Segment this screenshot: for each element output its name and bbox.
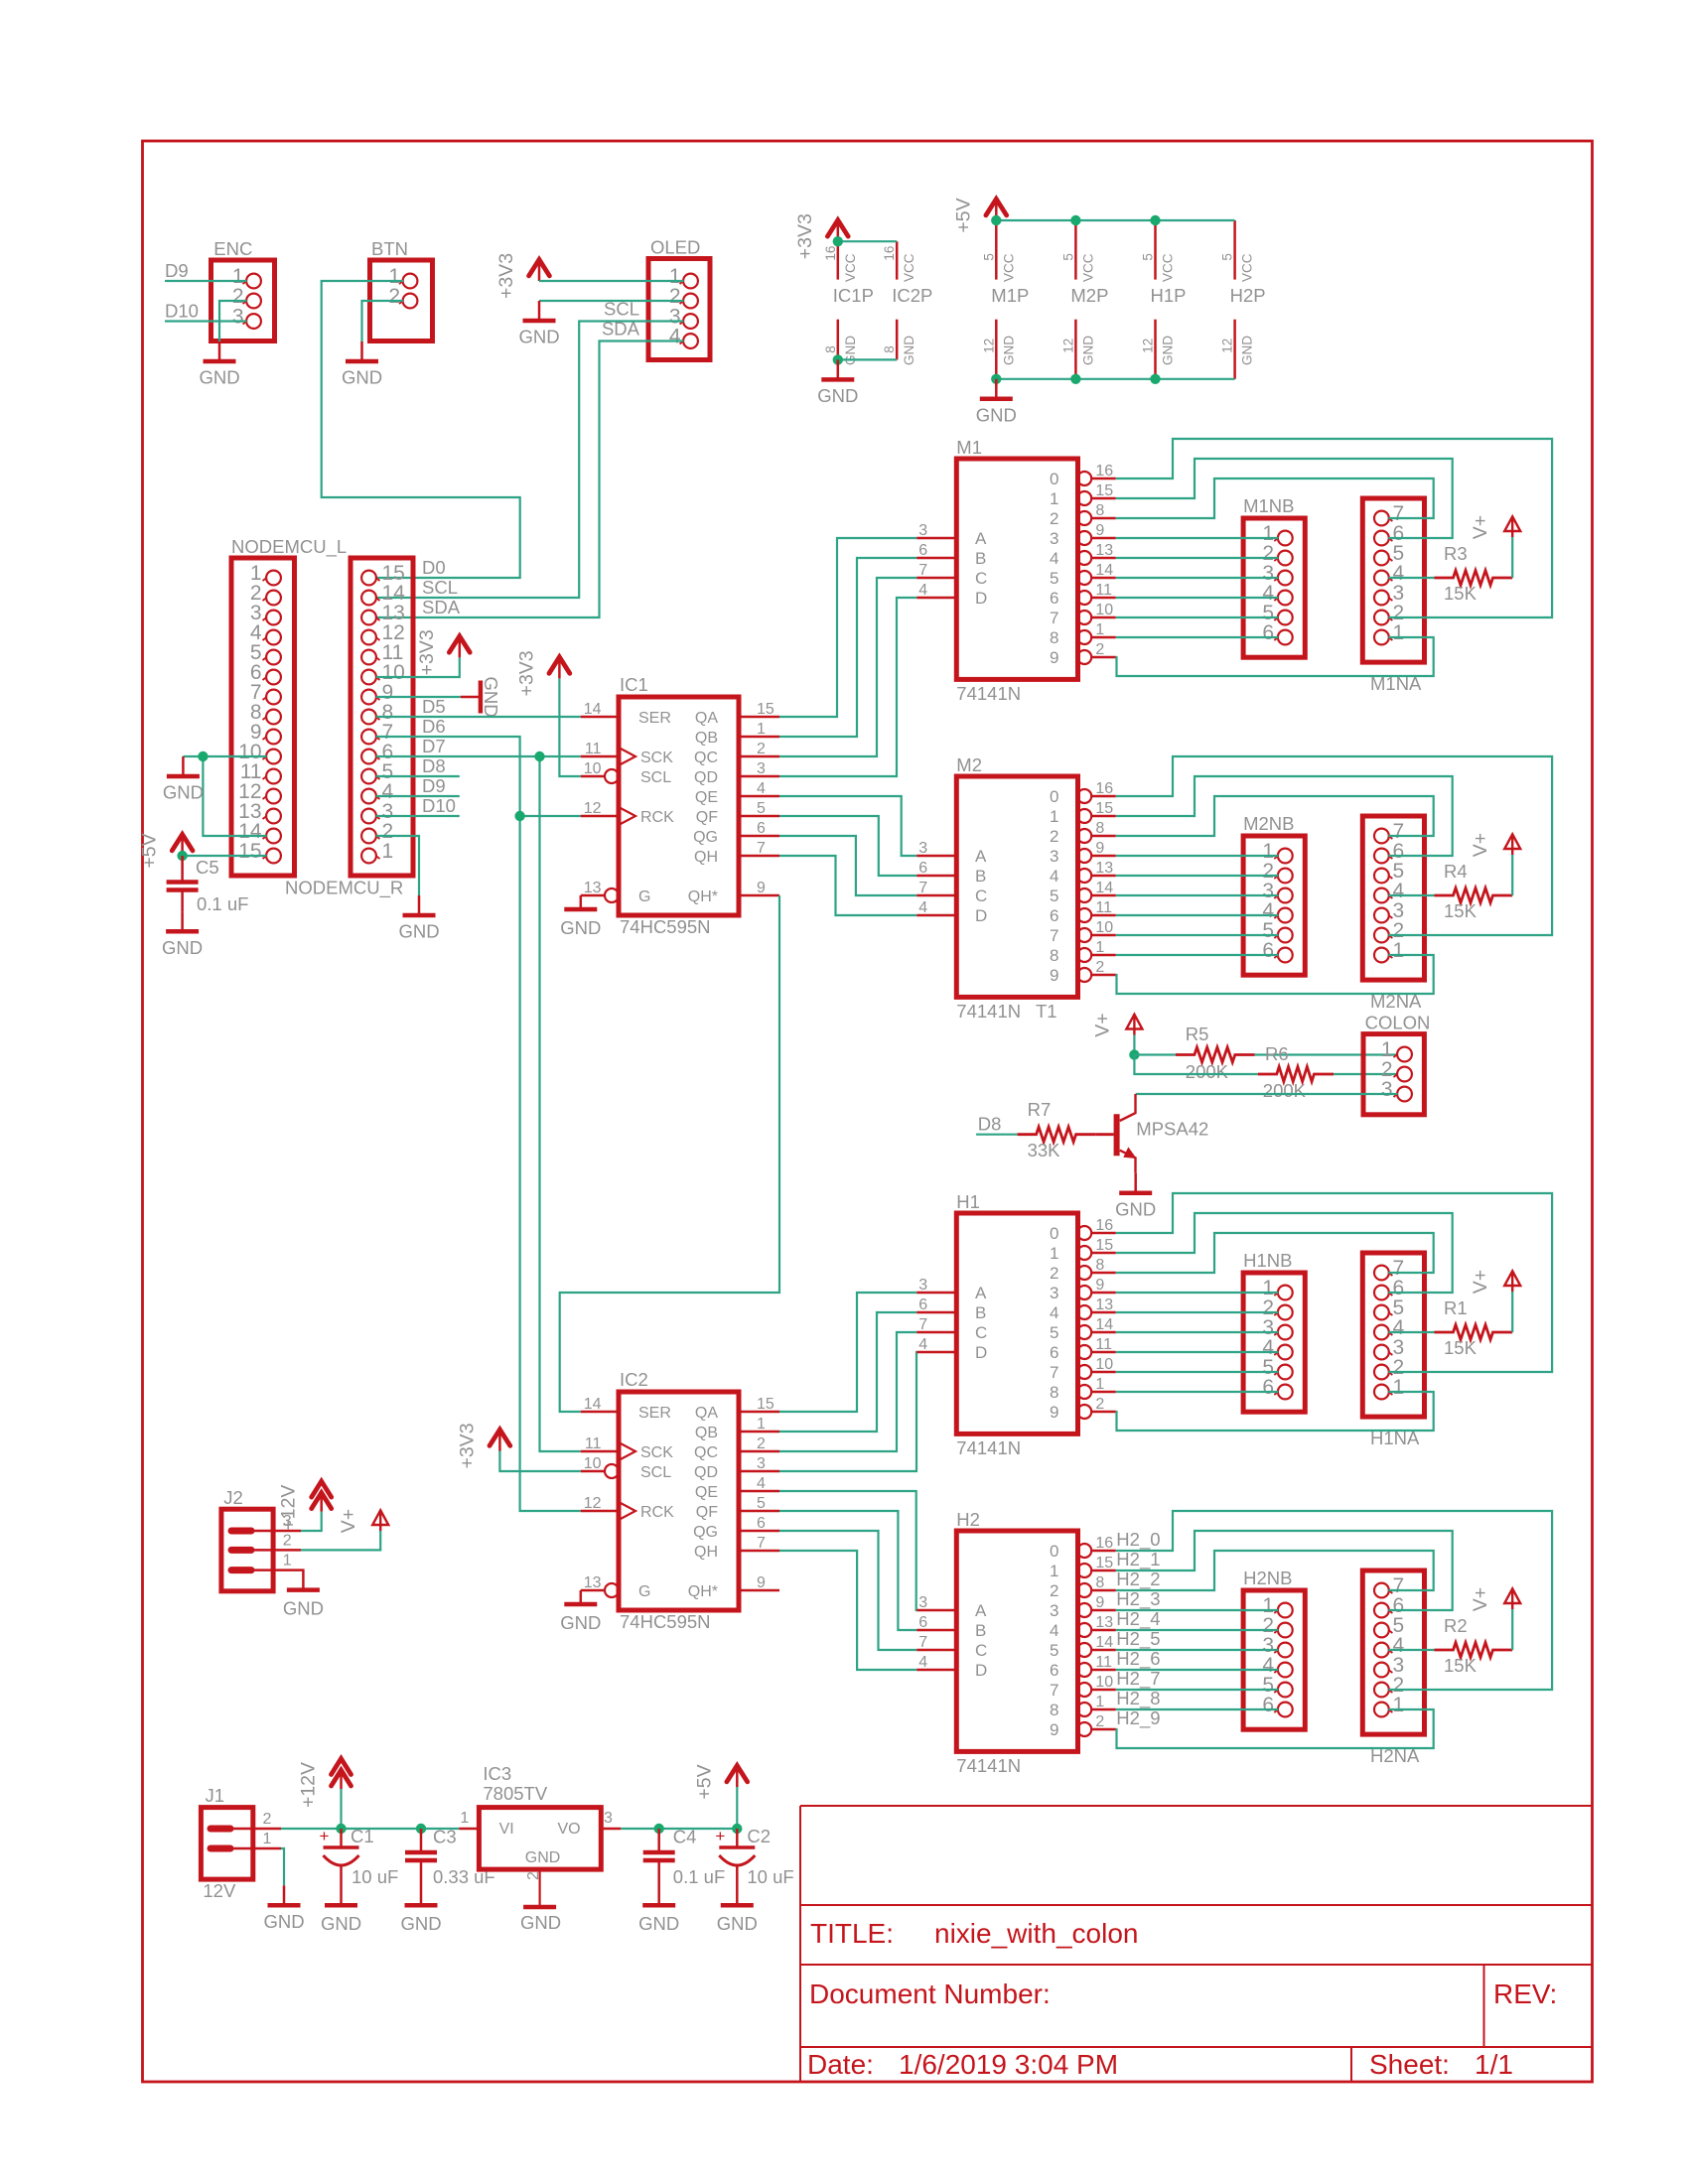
svg-text:8: 8 [1050,946,1058,965]
svg-text:H1: H1 [956,1191,980,1212]
svg-text:3: 3 [1050,847,1058,866]
svg-text:C: C [975,887,987,905]
svg-text:QF: QF [696,809,718,826]
connector H2NB [1243,1590,1305,1729]
svg-text:+3V3: +3V3 [456,1423,478,1468]
svg-text:8: 8 [1095,1257,1104,1274]
svg-text:B: B [975,1621,986,1640]
wire J2 pin3 to +12V [273,1530,301,1533]
svg-text:VCC: VCC [1080,253,1095,282]
wire V+ to R6 [1134,1055,1257,1075]
svg-text:1: 1 [460,1810,469,1827]
wire R2 to V+ [1511,1609,1513,1650]
wire M1 digits 3-8 to M1NB [1116,537,1279,539]
IC1 pin 14 SER [581,716,619,719]
connector J2 [221,1509,273,1591]
svg-text:13: 13 [584,880,602,896]
svg-text:VI: VI [499,1821,514,1838]
junction H1P VCC [1150,215,1160,225]
svg-text:H2NB: H2NB [1243,1568,1292,1588]
wire BTN pin1 to D0 net [322,281,520,578]
svg-text:200K: 200K [1186,1061,1229,1082]
resistor R4 15K [1435,888,1513,903]
wire V+ to R5 [1134,1053,1176,1055]
IC1 pin 11 SCK [581,755,619,758]
svg-text:QE: QE [695,789,718,806]
svg-text:D: D [975,589,987,608]
svg-text:13: 13 [1095,542,1113,559]
IC2 G to GND [580,1590,583,1604]
svg-text:+12V: +12V [298,1762,320,1808]
svg-text:H2_1: H2_1 [1116,1549,1160,1570]
H1 pin 13 digit 4 [1077,1305,1091,1319]
wire IC1 QH to M2 D [779,856,916,915]
wire ENC pin2 to GND [219,301,247,341]
wire R4 to V+ [1511,855,1513,895]
svg-text:5: 5 [1141,253,1156,261]
svg-text:IC3: IC3 [483,1763,511,1784]
svg-text:13: 13 [1095,1297,1113,1313]
ground T1 emitter [1134,1173,1137,1193]
svg-text:QH: QH [694,849,718,866]
svg-text:H2_9: H2_9 [1116,1707,1160,1729]
svg-text:200K: 200K [1263,1080,1307,1101]
wire H2 digits 3-8 to H2NB [1116,1609,1279,1611]
svg-text:6: 6 [918,1297,927,1313]
svg-text:REV:: REV: [1493,1979,1557,2009]
svg-text:10: 10 [1095,1674,1113,1691]
svg-text:16: 16 [882,246,897,261]
svg-text:13: 13 [1095,860,1113,877]
H2 pin 16 digit 0 [1077,1544,1091,1558]
connector M1NA [1362,498,1424,662]
svg-text:MPSA42: MPSA42 [1136,1119,1208,1140]
svg-text:15K: 15K [1444,1337,1477,1358]
svg-text:0: 0 [1050,787,1058,806]
svg-text:11: 11 [1095,582,1112,599]
wire V+ stem R5 [1133,1035,1135,1055]
svg-text:9: 9 [1095,522,1104,539]
wire NODEMCU_L pin10/pin14 to GND [183,755,266,757]
svg-text:10 uF: 10 uF [352,1866,398,1887]
wire +5V to NODEMCU_L pin15 [183,855,267,857]
svg-text:16: 16 [823,246,838,261]
wire IC2 QH to H2 D [779,1551,916,1670]
connector COLON [1363,1034,1424,1115]
connector H1NA [1362,1253,1424,1417]
M1 pin 16 digit 0 [1077,472,1091,485]
connector J1 [201,1808,252,1880]
wire M2NA pin4 to resistor R4 [1388,894,1434,896]
wire M2 digits 3-8 to M2NB [1116,855,1279,857]
ground J2 [287,1587,320,1592]
svg-text:Sheet:: Sheet: [1369,2049,1450,2080]
svg-text:2: 2 [1050,509,1058,528]
M2 pin 6 B [916,875,956,878]
wire R1 to V+ [1511,1292,1513,1332]
wire COLON pin3 to T1 collector [1136,1093,1398,1095]
svg-text:SCK: SCK [640,750,673,766]
connector H1NB [1243,1273,1305,1412]
resistor R2 15K [1435,1643,1513,1658]
svg-text:SER: SER [638,1405,671,1422]
svg-text:C: C [975,1323,987,1342]
wire H1NA pin4 to resistor R1 [1388,1331,1434,1333]
svg-text:H2: H2 [956,1509,980,1530]
svg-text:1: 1 [1050,1244,1058,1263]
svg-text:QC: QC [694,1444,718,1461]
svg-text:D0: D0 [422,557,446,578]
svg-text:3: 3 [1050,1601,1058,1620]
svg-text:QH*: QH* [688,1583,718,1600]
svg-text:R6: R6 [1265,1043,1289,1064]
svg-text:8: 8 [1095,1574,1104,1591]
IC1 pin 5 QF [739,815,779,818]
H1 pin 3 A [916,1292,956,1295]
svg-text:1: 1 [283,1553,292,1570]
svg-text:3: 3 [757,1455,766,1472]
svg-text:1: 1 [1095,1376,1104,1393]
svg-text:1: 1 [1050,1562,1058,1580]
svg-text:1: 1 [1393,1694,1405,1716]
svg-text:6: 6 [757,820,766,837]
connector M2NA [1362,816,1424,980]
H2 pin 3 A [916,1609,956,1612]
power symbol H2P GND pin [1233,320,1236,379]
wire IC1 QA to M1 A [779,538,916,717]
svg-text:8: 8 [882,345,897,353]
svg-text:2: 2 [1050,1264,1058,1283]
svg-text:GND: GND [717,1913,758,1934]
transistor T1 MPSA42 [1114,1114,1120,1156]
svg-text:12: 12 [1141,339,1156,353]
IC2 pin 7 QH [739,1550,779,1553]
IC1 pin 6 QG [739,835,779,838]
wire +12V stem C1 [340,1789,342,1829]
supply +3V3 at IC1 SCL [549,657,570,673]
svg-text:74141N: 74141N [956,683,1021,704]
svg-text:1/6/2019 3:04 PM: 1/6/2019 3:04 PM [899,2049,1118,2080]
M1 pin 4 D [916,597,956,600]
svg-text:15K: 15K [1444,1655,1477,1676]
svg-text:1/1: 1/1 [1475,2049,1513,2080]
power symbol M1P GND pin [995,320,998,379]
IC1 pin 12 RCK [581,815,619,818]
svg-text:4: 4 [757,780,766,797]
wire +5V rail [996,219,1234,221]
svg-text:1: 1 [1393,621,1405,644]
svg-text:5: 5 [1060,253,1075,261]
M2 pin 13 digit 4 [1077,869,1091,883]
wire H1 digit0 to H1NA pin2 [1116,1193,1552,1372]
IC2 pin 15 QA [739,1411,779,1414]
svg-text:33K: 33K [1028,1140,1061,1160]
svg-text:4: 4 [1050,1303,1058,1322]
svg-text:QB: QB [695,730,718,747]
wire H1 digit2 to H1NA pin7 [1116,1233,1434,1273]
H1 pin 4 D [916,1351,956,1354]
H1 pin 7 C [916,1331,956,1334]
svg-text:7: 7 [918,880,927,896]
svg-text:10 uF: 10 uF [747,1866,793,1887]
svg-text:A: A [975,529,987,548]
svg-text:GND: GND [638,1913,679,1934]
svg-text:1: 1 [1095,1694,1104,1710]
svg-text:3: 3 [918,522,927,539]
svg-text:9: 9 [1095,840,1104,857]
H1 pin 8 digit 2 [1077,1266,1091,1280]
ground OLED [538,301,541,321]
svg-text:GND: GND [518,327,559,347]
svg-text:NODEMCU_L: NODEMCU_L [231,536,347,558]
svg-text:VCC: VCC [843,253,858,282]
svg-text:V+: V+ [338,1509,359,1533]
M1 pin 13 digit 4 [1077,551,1091,565]
svg-text:A: A [975,847,987,866]
H1 pin 2 digit 9 [1077,1405,1091,1419]
svg-text:RCK: RCK [640,809,674,826]
svg-text:2: 2 [388,285,400,308]
M1 pin 11 digit 6 [1077,591,1091,605]
junction IC1P GND [833,354,843,364]
svg-text:GND: GND [400,1913,441,1934]
svg-text:6: 6 [1050,906,1058,925]
H2 pin 2 digit 9 [1077,1722,1091,1736]
svg-text:C: C [975,1641,987,1660]
svg-text:11: 11 [1095,1336,1112,1353]
wire H1 digit1 to H1NA pin6 [1116,1213,1453,1293]
svg-text:2: 2 [757,741,766,757]
H2 pin 1 digit 8 [1077,1703,1091,1716]
svg-text:9: 9 [1050,1403,1058,1422]
svg-text:1: 1 [1095,939,1104,956]
wire D8 to R7 [976,1134,1018,1136]
svg-text:TITLE:: TITLE: [810,1918,894,1949]
H2 pin 8 digit 2 [1077,1583,1091,1597]
svg-text:3: 3 [1050,529,1058,548]
svg-text:GND: GND [1080,336,1095,365]
connector M1NB [1243,518,1305,657]
svg-text:V+: V+ [1470,833,1491,857]
svg-text:GND: GND [162,937,203,958]
IC1 pin 1 QB [739,736,779,739]
svg-text:9: 9 [1050,1720,1058,1739]
wire IC1 QD to M1 D [779,598,916,776]
svg-text:C5: C5 [196,857,219,878]
svg-text:IC2P: IC2P [892,285,932,306]
svg-text:8: 8 [1050,1383,1058,1402]
resistor R5 200K [1176,1047,1255,1062]
svg-text:4: 4 [1050,867,1058,886]
IC1 pin 10 SCL [581,775,605,778]
svg-text:R1: R1 [1444,1297,1468,1318]
svg-text:10: 10 [584,760,602,777]
supply +3V3 at IC2 SCL [490,1430,510,1445]
supply V+ at J2 [372,1510,388,1525]
ground C1 [325,1903,357,1908]
svg-text:7: 7 [1050,609,1058,627]
shift register IC1 74HC595N body [619,697,739,915]
wire SCL net OLED pin3 to NODEMCU_R pin14 [376,322,684,599]
svg-text:Date:: Date: [807,2049,874,2080]
svg-text:+5V: +5V [952,198,974,232]
svg-text:2: 2 [1095,1396,1104,1413]
wire IC3 VO to +5V [621,1828,737,1830]
svg-text:15K: 15K [1444,583,1477,604]
svg-text:10: 10 [1095,919,1113,936]
wire J2 pin2 to V+ [273,1549,301,1552]
svg-text:12: 12 [981,339,996,353]
svg-text:13: 13 [1095,1614,1113,1631]
svg-text:3: 3 [232,306,244,329]
svg-text:14: 14 [1095,1634,1113,1651]
connector H2NA [1362,1570,1424,1734]
svg-text:16: 16 [1095,463,1113,479]
M1 pin 8 digit 2 [1077,511,1091,525]
svg-text:0.1 uF: 0.1 uF [673,1866,725,1887]
svg-text:H1NB: H1NB [1243,1250,1292,1271]
svg-text:QH*: QH* [688,888,718,905]
supply +5V at C2 [727,1766,748,1782]
svg-text:74HC595N: 74HC595N [620,916,711,937]
svg-text:6: 6 [1262,1694,1274,1716]
svg-text:12: 12 [1060,339,1075,353]
power symbol IC1P VCC pin [837,241,840,279]
svg-text:6: 6 [918,860,927,877]
svg-text:VCC: VCC [1240,253,1255,282]
svg-text:Document Number:: Document Number: [809,1979,1051,2009]
connector NODEMCU_R [351,558,413,876]
IC2 pin 10 SCL [581,1470,605,1473]
svg-text:15: 15 [757,1396,774,1413]
svg-text:QF: QF [696,1504,718,1521]
ground C3 [405,1903,438,1908]
wire D9 to ENC pin1 [165,280,247,282]
svg-text:SCL: SCL [640,769,671,786]
svg-text:13: 13 [584,1574,602,1591]
svg-text:QD: QD [694,769,718,786]
svg-text:0: 0 [1050,1224,1058,1243]
capacitor C2 10uF [736,1829,739,1847]
svg-text:8: 8 [1050,1701,1058,1719]
svg-text:2: 2 [1095,1713,1104,1730]
svg-text:B: B [975,549,986,568]
junction C3 [416,1824,426,1834]
svg-text:C1: C1 [351,1826,374,1846]
svg-text:QB: QB [695,1425,718,1441]
IC2 pin 12 RCK [581,1510,619,1513]
wire IC2 QG to H2 C [779,1531,916,1650]
H2 pin 11 digit 6 [1077,1663,1091,1677]
svg-text:D10: D10 [422,795,456,816]
svg-text:9: 9 [1050,966,1058,985]
svg-text:IC2: IC2 [620,1369,648,1390]
supply V+ at R1 [1504,1271,1520,1286]
svg-text:QE: QE [695,1484,718,1501]
H1 pin 14 digit 5 [1077,1325,1091,1339]
svg-text:C3: C3 [433,1827,457,1847]
svg-text:D8: D8 [422,755,446,776]
svg-text:GND: GND [1240,336,1255,365]
svg-text:H1P: H1P [1151,285,1187,306]
wire IC1 QC to M1 C [779,578,916,756]
power symbol IC1P GND pin [837,320,840,360]
driver H2 74141N body [956,1531,1077,1751]
svg-text:11: 11 [585,1435,602,1452]
svg-text:GND: GND [481,676,501,717]
M1 pin 14 digit 5 [1077,571,1091,585]
M1 pin 9 digit 3 [1077,531,1091,545]
regulator IC3 7805TV [479,1808,601,1870]
shift register IC2 74HC595N body [619,1392,739,1610]
svg-text:7: 7 [1050,926,1058,945]
svg-text:12: 12 [584,1495,602,1512]
ground J1 [283,1885,286,1905]
svg-text:3: 3 [757,760,766,777]
svg-text:4: 4 [669,326,681,348]
junction C2 [732,1824,742,1834]
svg-text:GND: GND [560,917,601,938]
wire D8 stub [376,775,460,777]
svg-text:6: 6 [1262,621,1274,644]
supply V+ at R4 [1504,834,1520,849]
wire GND rail [996,378,1234,380]
M2 pin 14 digit 5 [1077,888,1091,902]
svg-text:14: 14 [1095,880,1113,896]
svg-text:NODEMCU_R: NODEMCU_R [285,878,403,899]
svg-text:GND: GND [976,404,1017,425]
resistor R3 15K [1435,571,1513,586]
supply +3V3 at IC1P [827,220,848,236]
svg-text:1: 1 [1050,807,1058,826]
svg-text:+12V: +12V [278,1485,300,1531]
wire IC2 QE to H2 A [779,1491,916,1610]
M2 pin 15 digit 1 [1077,809,1091,823]
H1 pin 10 digit 7 [1077,1365,1091,1379]
svg-text:12: 12 [1220,339,1235,353]
svg-text:B: B [975,867,986,886]
wire H2 digit2 to H2NA pin7 [1116,1551,1434,1590]
svg-text:C2: C2 [747,1826,771,1846]
svg-text:5: 5 [1050,1323,1058,1342]
svg-text:R2: R2 [1444,1615,1468,1636]
wire M1 digit0 to M1NA pin2 [1116,439,1552,617]
resistor R7 33K [1018,1127,1096,1142]
wire NODEMCU_R pin9 to GND [376,696,461,698]
junction NODEMCU_L GND [198,751,208,761]
svg-text:H2_8: H2_8 [1116,1688,1160,1709]
svg-text:5: 5 [1050,887,1058,905]
power symbol H1P GND pin [1154,320,1157,379]
H2 pin 14 digit 5 [1077,1643,1091,1657]
M2 pin 1 digit 8 [1077,948,1091,962]
H2 pin 6 B [916,1629,956,1632]
IC1 pin 2 QC [739,755,779,758]
M2 pin 2 digit 9 [1077,968,1091,982]
svg-text:M2: M2 [956,754,982,775]
svg-text:D10: D10 [165,301,199,322]
svg-text:7: 7 [757,1535,766,1552]
ground rotated NODEMCU_R pin9 [461,696,481,699]
svg-text:GND: GND [560,1612,601,1633]
svg-text:1: 1 [757,721,766,738]
svg-text:D7: D7 [422,736,446,756]
IC3 pin 3 [601,1828,621,1831]
svg-text:9: 9 [1095,1594,1104,1611]
svg-text:5: 5 [757,800,766,817]
ground ENC [218,341,221,361]
svg-text:SCK: SCK [640,1444,673,1461]
